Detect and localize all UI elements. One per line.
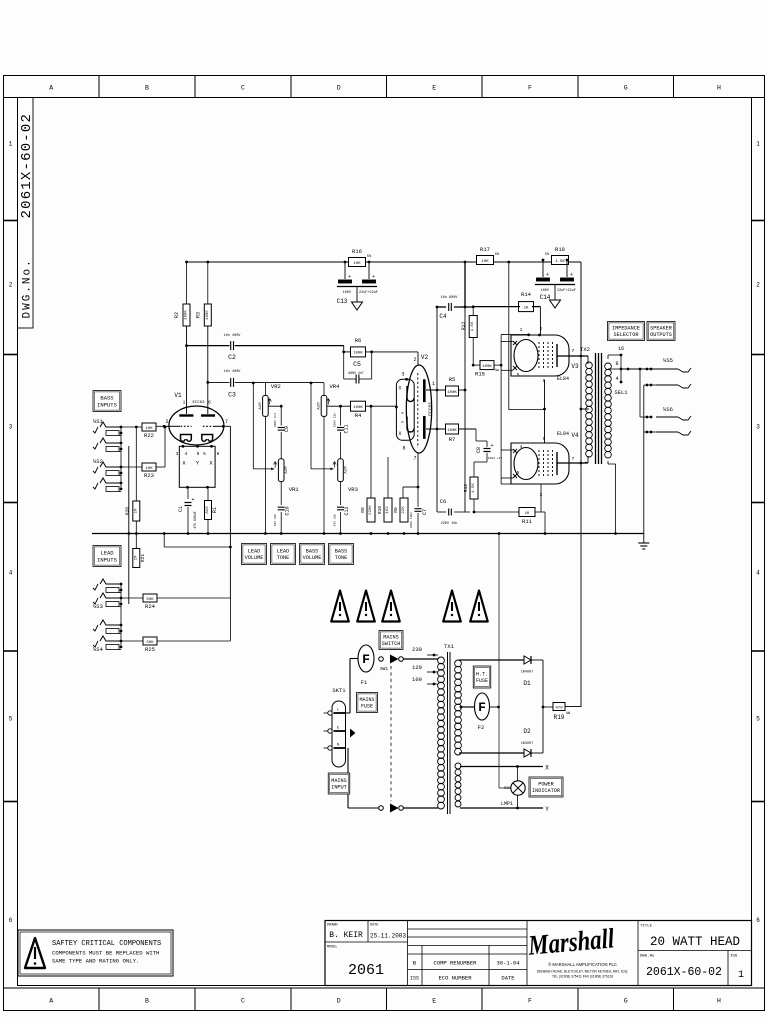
svg-text:1: 1	[183, 400, 186, 406]
svg-text:EL84: EL84	[557, 431, 569, 437]
svg-text:+: +	[191, 497, 194, 503]
svg-text:C8: C8	[476, 447, 482, 453]
svg-text:1K: 1K	[525, 512, 530, 516]
svg-text:D2: D2	[523, 728, 531, 735]
svg-text:10n 400V: 10n 400V	[224, 334, 242, 338]
svg-text:¼S5: ¼S5	[663, 357, 673, 364]
svg-text:5: 5	[203, 451, 206, 457]
svg-text:R7: R7	[449, 436, 456, 443]
svg-text:TITLE: TITLE	[640, 925, 653, 929]
svg-text:G: G	[624, 85, 628, 92]
svg-text:POWER: POWER	[538, 782, 554, 788]
svg-text:820: 820	[206, 506, 210, 514]
svg-text:VR3: VR3	[348, 486, 358, 493]
svg-text:R19: R19	[554, 714, 565, 721]
svg-text:F: F	[478, 700, 486, 715]
svg-text:6: 6	[9, 917, 13, 924]
svg-text:2: 2	[756, 282, 760, 289]
svg-text:C5: C5	[353, 361, 361, 368]
svg-text:10K: 10K	[353, 262, 361, 266]
svg-text:100: 100	[412, 676, 422, 683]
svg-text:R12: R12	[463, 484, 469, 492]
svg-text:IMPEDANCE: IMPEDANCE	[612, 326, 640, 332]
svg-text:C10: C10	[285, 506, 291, 515]
svg-text:4: 4	[9, 570, 13, 577]
svg-text:© MARSHALL AMPLIFICATION PLC: © MARSHALL AMPLIFICATION PLC	[548, 962, 617, 967]
svg-text:R15: R15	[475, 371, 485, 378]
svg-text:ECO NUMBER: ECO NUMBER	[438, 975, 472, 982]
svg-text:R16: R16	[352, 248, 362, 255]
svg-text:INDICATOR: INDICATOR	[532, 788, 560, 794]
svg-text:H: H	[717, 998, 721, 1005]
svg-text:R9: R9	[393, 507, 399, 513]
svg-text:MAINS: MAINS	[383, 635, 399, 641]
svg-text:OUTPUTS: OUTPUTS	[650, 332, 672, 338]
svg-text:TONE: TONE	[277, 555, 289, 561]
svg-text:C6: C6	[440, 498, 447, 505]
svg-text:50K: 50K	[146, 598, 154, 602]
svg-text:3: 3	[176, 451, 179, 457]
svg-text:R11: R11	[522, 518, 533, 525]
svg-text:H: H	[717, 85, 721, 92]
svg-text:A1M: A1M	[285, 466, 289, 474]
svg-text:TX1: TX1	[444, 643, 455, 650]
svg-text:R17: R17	[480, 246, 490, 253]
svg-text:100V: 100V	[343, 291, 352, 295]
svg-text:MAINS: MAINS	[331, 778, 347, 784]
svg-text:1.5K: 1.5K	[472, 483, 476, 493]
svg-text:D1: D1	[523, 680, 531, 687]
svg-text:6: 6	[208, 400, 211, 406]
svg-text:BASS: BASS	[335, 549, 347, 555]
svg-text:C: C	[241, 998, 245, 1005]
svg-text:MAINS: MAINS	[359, 697, 374, 703]
svg-text:SKT1: SKT1	[332, 687, 346, 694]
svg-text:F: F	[528, 85, 532, 92]
svg-text:R20: R20	[125, 507, 131, 515]
svg-text:+: +	[348, 274, 351, 280]
svg-text:220V 10n: 220V 10n	[441, 522, 458, 526]
svg-text:2: 2	[413, 357, 416, 363]
svg-text:F: F	[362, 652, 370, 667]
svg-text:C7: C7	[422, 509, 428, 515]
svg-text:R8: R8	[360, 507, 366, 513]
svg-text:1N4007: 1N4007	[521, 671, 534, 675]
svg-text:C13: C13	[337, 298, 348, 305]
svg-text:A1M: A1M	[259, 402, 263, 410]
svg-text:B. KEIR: B. KEIR	[329, 931, 363, 940]
svg-text:120: 120	[412, 664, 422, 671]
svg-text:R13: R13	[461, 322, 467, 330]
svg-text:SEL1: SEL1	[614, 389, 628, 396]
svg-text:A: A	[49, 85, 53, 92]
svg-text:5: 5	[9, 716, 13, 723]
svg-text:10n 600V: 10n 600V	[441, 296, 459, 300]
svg-text:5: 5	[756, 716, 760, 723]
svg-text:100K: 100K	[185, 310, 189, 320]
svg-text:10n 400V: 10n 400V	[224, 370, 242, 374]
svg-text:B: B	[145, 85, 149, 92]
svg-text:7: 7	[572, 456, 575, 462]
svg-text:100K: 100K	[353, 352, 363, 356]
svg-text:FUSE: FUSE	[476, 678, 488, 684]
svg-text:1K: 1K	[524, 306, 529, 310]
svg-text:5: 5	[402, 421, 406, 423]
svg-text:1: 1	[756, 141, 760, 148]
svg-text:100K: 100K	[447, 391, 457, 395]
svg-text:EL84: EL84	[557, 376, 569, 382]
svg-text:C4: C4	[439, 313, 447, 320]
svg-text:A1M: A1M	[318, 402, 322, 410]
svg-text:V3: V3	[571, 363, 579, 370]
svg-text:C1: C1	[178, 506, 184, 512]
svg-text:Y: Y	[545, 806, 549, 813]
svg-text:9: 9	[402, 412, 406, 414]
svg-text:SWITCH: SWITCH	[382, 641, 401, 647]
svg-text:1: 1	[738, 970, 744, 981]
svg-text:7: 7	[413, 456, 416, 462]
svg-text:TONE: TONE	[335, 555, 347, 561]
svg-text:6: 6	[756, 917, 760, 924]
svg-text:C11: C11	[344, 424, 350, 433]
svg-text:A1M: A1M	[345, 466, 349, 474]
svg-text:220V 22n: 220V 22n	[334, 413, 337, 428]
svg-text:VOLUME: VOLUME	[303, 555, 322, 561]
svg-text:SAME TYPE AND RATING ONLY.: SAME TYPE AND RATING ONLY.	[52, 958, 139, 965]
svg-text:7: 7	[572, 348, 575, 354]
svg-text:G: G	[624, 998, 628, 1005]
svg-text:R21: R21	[140, 554, 146, 562]
svg-text:C14: C14	[540, 294, 551, 301]
svg-text:100K: 100K	[353, 406, 363, 410]
svg-text:FUSE: FUSE	[361, 703, 373, 709]
svg-text:10K: 10K	[145, 467, 153, 471]
svg-text:3: 3	[756, 424, 760, 431]
svg-text:V2: V2	[421, 354, 429, 361]
svg-text:4: 4	[615, 376, 618, 382]
svg-text:SELECTOR: SELECTOR	[614, 332, 639, 338]
svg-text:V4: V4	[571, 432, 579, 439]
svg-text:ISS: ISS	[410, 976, 419, 982]
svg-text:N: N	[337, 744, 339, 748]
svg-text:R24: R24	[145, 603, 156, 610]
svg-text:ECC83: ECC83	[428, 402, 434, 416]
svg-text:+: +	[490, 443, 493, 449]
svg-text:9: 9	[197, 451, 200, 457]
svg-text:R22: R22	[144, 432, 154, 439]
svg-text:R4: R4	[355, 412, 362, 419]
svg-text:¼S6: ¼S6	[663, 406, 673, 413]
svg-text:+: +	[372, 274, 375, 280]
svg-text:INPUTS: INPUTS	[97, 556, 118, 563]
svg-text:+: +	[546, 272, 549, 278]
svg-text:R18: R18	[555, 246, 565, 253]
svg-text:1: 1	[9, 141, 13, 148]
svg-text:SPEAKER: SPEAKER	[650, 326, 672, 332]
svg-text:3: 3	[401, 372, 404, 378]
svg-text:220K: 220K	[369, 505, 373, 515]
svg-text:2061X-60-02: 2061X-60-02	[19, 113, 35, 219]
svg-text:DWG.No.: DWG.No.	[22, 258, 34, 318]
svg-text:1: 1	[432, 381, 435, 387]
svg-text:2: 2	[9, 282, 13, 289]
svg-text:63V 22n: 63V 22n	[334, 514, 337, 527]
svg-text:R3: R3	[196, 312, 202, 318]
svg-text:V1: V1	[174, 392, 182, 399]
svg-text:63V 22n: 63V 22n	[274, 514, 277, 527]
svg-text:BASS: BASS	[306, 549, 318, 555]
svg-text:VR2: VR2	[271, 383, 281, 390]
svg-text:100V +47: 100V +47	[488, 457, 503, 460]
svg-text:F1: F1	[361, 679, 368, 686]
svg-text:DRAWN: DRAWN	[327, 924, 338, 928]
svg-text:7: 7	[225, 419, 228, 425]
svg-text:+: +	[570, 272, 573, 278]
svg-text:A: A	[49, 998, 53, 1005]
svg-text:R1: R1	[212, 507, 218, 513]
svg-text:2061: 2061	[348, 962, 384, 979]
svg-text:COMPONENTS MUST BE REPLACED WI: COMPONENTS MUST BE REPLACED WITH	[52, 950, 159, 957]
svg-text:20 WATT HEAD: 20 WATT HEAD	[650, 935, 740, 949]
svg-text:X: X	[398, 386, 401, 392]
svg-text:1.5K: 1.5K	[555, 260, 565, 264]
svg-text:3: 3	[9, 424, 13, 431]
svg-text:68NV 4n7: 68NV 4n7	[348, 371, 363, 375]
svg-text:¼S4: ¼S4	[93, 646, 104, 653]
svg-text:INPUTS: INPUTS	[97, 401, 118, 408]
svg-text:5: 5	[517, 470, 520, 476]
svg-text:VR4: VR4	[330, 383, 341, 390]
svg-text:D: D	[337, 998, 341, 1005]
svg-text:C2: C2	[228, 354, 236, 361]
svg-text:E: E	[432, 85, 436, 92]
svg-text:1M: 1M	[134, 555, 138, 560]
svg-text:16: 16	[618, 346, 624, 352]
svg-text:TX2: TX2	[580, 346, 590, 353]
svg-text:R6: R6	[355, 337, 362, 344]
svg-text:C: C	[241, 85, 245, 92]
svg-text:220V 100n: 220V 100n	[410, 512, 413, 528]
svg-text:X: X	[545, 765, 549, 772]
svg-text:ISS: ISS	[730, 955, 738, 959]
svg-text:5: 5	[517, 372, 520, 378]
svg-text:F: F	[528, 998, 532, 1005]
svg-text:R25: R25	[145, 646, 155, 653]
svg-text:50K: 50K	[146, 641, 154, 645]
svg-text:230: 230	[412, 646, 422, 653]
svg-text:C3: C3	[228, 392, 236, 399]
svg-text:4: 4	[520, 444, 523, 450]
svg-text:MODEL: MODEL	[327, 946, 338, 950]
svg-text:100K: 100K	[206, 310, 210, 320]
svg-text:R2: R2	[174, 312, 180, 318]
svg-text:4: 4	[756, 570, 760, 577]
svg-text:LMP1: LMP1	[501, 801, 513, 807]
svg-text:COMP RENUMBER: COMP RENUMBER	[434, 960, 478, 967]
svg-text:10K: 10K	[481, 260, 489, 264]
svg-text:100K: 100K	[482, 365, 492, 369]
svg-text:DATE: DATE	[370, 924, 378, 928]
svg-text:22uF+22uF: 22uF+22uF	[359, 291, 378, 295]
svg-text:47V 680uF: 47V 680uF	[193, 511, 197, 528]
svg-text:F2: F2	[478, 724, 485, 731]
svg-text:X: X	[398, 431, 401, 437]
svg-text:1: 1	[520, 327, 523, 333]
svg-text:22K: 22K	[402, 506, 406, 514]
svg-text:¼S3: ¼S3	[93, 603, 103, 610]
svg-text:100V: 100V	[541, 289, 550, 293]
svg-text:8: 8	[615, 361, 618, 367]
svg-text:H.T.: H.T.	[476, 672, 488, 678]
svg-text:E: E	[432, 998, 436, 1005]
svg-text:TEL (01908) 375411 FAX (01908): TEL (01908) 375411 FAX (01908) 376118	[552, 975, 613, 979]
svg-text:¼S2: ¼S2	[93, 458, 103, 465]
svg-text:100K: 100K	[447, 429, 457, 433]
svg-text:LEAD: LEAD	[277, 549, 289, 555]
svg-text:ECC83: ECC83	[192, 401, 205, 405]
svg-text:LEAD: LEAD	[248, 549, 260, 555]
svg-text:DWG.No: DWG.No	[640, 955, 655, 959]
svg-text:1K2: 1K2	[386, 506, 390, 514]
svg-text:22uF+22uF: 22uF+22uF	[557, 289, 576, 293]
svg-text:VR1: VR1	[289, 486, 300, 493]
svg-text:¼S1: ¼S1	[93, 418, 104, 425]
svg-text:C9: C9	[284, 426, 290, 432]
svg-text:8: 8	[402, 446, 405, 452]
svg-text:R23: R23	[144, 472, 154, 479]
svg-text:SAFTEY CRITICAL COMPONENTS: SAFTEY CRITICAL COMPONENTS	[52, 940, 161, 948]
svg-text:DATE: DATE	[501, 975, 515, 982]
svg-text:D: D	[337, 85, 341, 92]
svg-text:22NV 4n7: 22NV 4n7	[274, 413, 277, 428]
svg-text:10K: 10K	[145, 427, 153, 431]
svg-text:2061X-60-02: 2061X-60-02	[646, 966, 722, 979]
svg-text:VOLUME: VOLUME	[245, 555, 264, 561]
svg-text:30-1-04: 30-1-04	[496, 960, 520, 967]
svg-text:1N4007: 1N4007	[521, 742, 534, 746]
svg-text:25.11.2003: 25.11.2003	[370, 933, 406, 940]
svg-text:R14: R14	[521, 291, 532, 298]
svg-text:4: 4	[185, 451, 188, 457]
svg-text:C12: C12	[344, 506, 350, 515]
svg-text:2: 2	[165, 419, 168, 425]
svg-text:1.5K: 1.5K	[471, 321, 475, 331]
svg-text:DENBIGH ROAD, BLETCHLEY, MILTO: DENBIGH ROAD, BLETCHLEY, MILTON KEYNES, …	[537, 970, 629, 974]
svg-text:R5: R5	[449, 376, 456, 383]
svg-text:1M: 1M	[134, 508, 138, 513]
svg-text:470: 470	[555, 706, 563, 710]
svg-text:R10: R10	[377, 506, 383, 514]
svg-text:SW1: SW1	[380, 666, 388, 672]
svg-text:B: B	[145, 998, 149, 1005]
svg-text:INPUT: INPUT	[331, 785, 347, 791]
svg-text:8: 8	[217, 451, 220, 457]
